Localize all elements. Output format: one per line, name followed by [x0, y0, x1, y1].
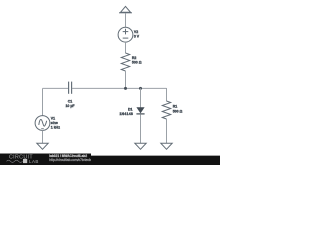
- diode D1: [136, 107, 144, 114]
- node junction: [139, 87, 142, 90]
- node junction: [124, 87, 127, 90]
- wire: [43, 87, 69, 89]
- watermark banner: [0, 156, 220, 165]
- ground: [37, 143, 48, 149]
- resistor R1: [162, 101, 170, 119]
- voltage source V1: [35, 116, 50, 131]
- capacitor C1: [69, 82, 72, 94]
- svg-text:R1: R1: [173, 104, 178, 108]
- ground: [135, 143, 146, 149]
- svg-text:LAB: LAB: [29, 159, 39, 164]
- wire: [42, 88, 44, 115]
- svg-text:1N4148: 1N4148: [119, 112, 133, 116]
- svg-text:sine: sine: [51, 121, 58, 125]
- svg-text:1 kHz: 1 kHz: [51, 126, 60, 130]
- wire: [140, 114, 142, 143]
- svg-text:3 V: 3 V: [134, 35, 140, 39]
- power supply +V: [119, 6, 132, 12]
- CircuitLab logo: [7, 155, 39, 164]
- svg-text:http://circuitlab.com/c7b4ecb: http://circuitlab.com/c7b4ecb: [49, 158, 91, 162]
- svg-text:D1: D1: [128, 107, 133, 111]
- voltage source V2: [118, 27, 133, 42]
- svg-text:10 µF: 10 µF: [65, 104, 75, 108]
- wire: [125, 71, 127, 88]
- ground: [161, 143, 172, 149]
- wire: [125, 42, 127, 53]
- wire: [140, 88, 142, 107]
- wire: [125, 13, 127, 27]
- resistor R2: [121, 53, 129, 71]
- svg-text:V2: V2: [134, 30, 138, 34]
- wire: [166, 119, 168, 143]
- wire: [42, 130, 44, 143]
- wire: [166, 88, 168, 101]
- wire: [72, 87, 167, 89]
- svg-text:V1: V1: [51, 117, 55, 121]
- svg-text:500 Ω: 500 Ω: [132, 61, 142, 65]
- svg-text:C1: C1: [68, 99, 73, 103]
- svg-text:R2: R2: [132, 56, 137, 60]
- svg-text:500 Ω: 500 Ω: [173, 109, 183, 113]
